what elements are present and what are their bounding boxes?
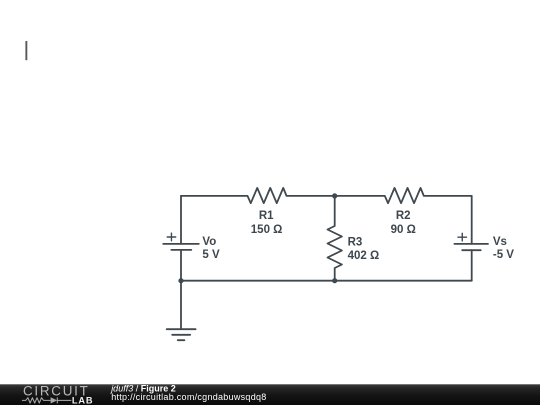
svg-text:R3: R3	[348, 237, 363, 249]
svg-text:Vs: Vs	[493, 236, 507, 248]
svg-text:150 Ω: 150 Ω	[251, 224, 283, 236]
svg-text:http://circuitlab.com/cgndabuw: http://circuitlab.com/cgndabuwsqdq8	[111, 392, 266, 402]
svg-text:5 V: 5 V	[202, 249, 220, 261]
svg-text:R1: R1	[259, 210, 274, 222]
svg-text:402 Ω: 402 Ω	[348, 250, 380, 262]
svg-text:-5 V: -5 V	[493, 249, 514, 261]
svg-text:R2: R2	[396, 210, 411, 222]
svg-text:LAB: LAB	[72, 395, 93, 405]
svg-text:Vo: Vo	[202, 236, 216, 248]
svg-text:90 Ω: 90 Ω	[391, 224, 416, 236]
